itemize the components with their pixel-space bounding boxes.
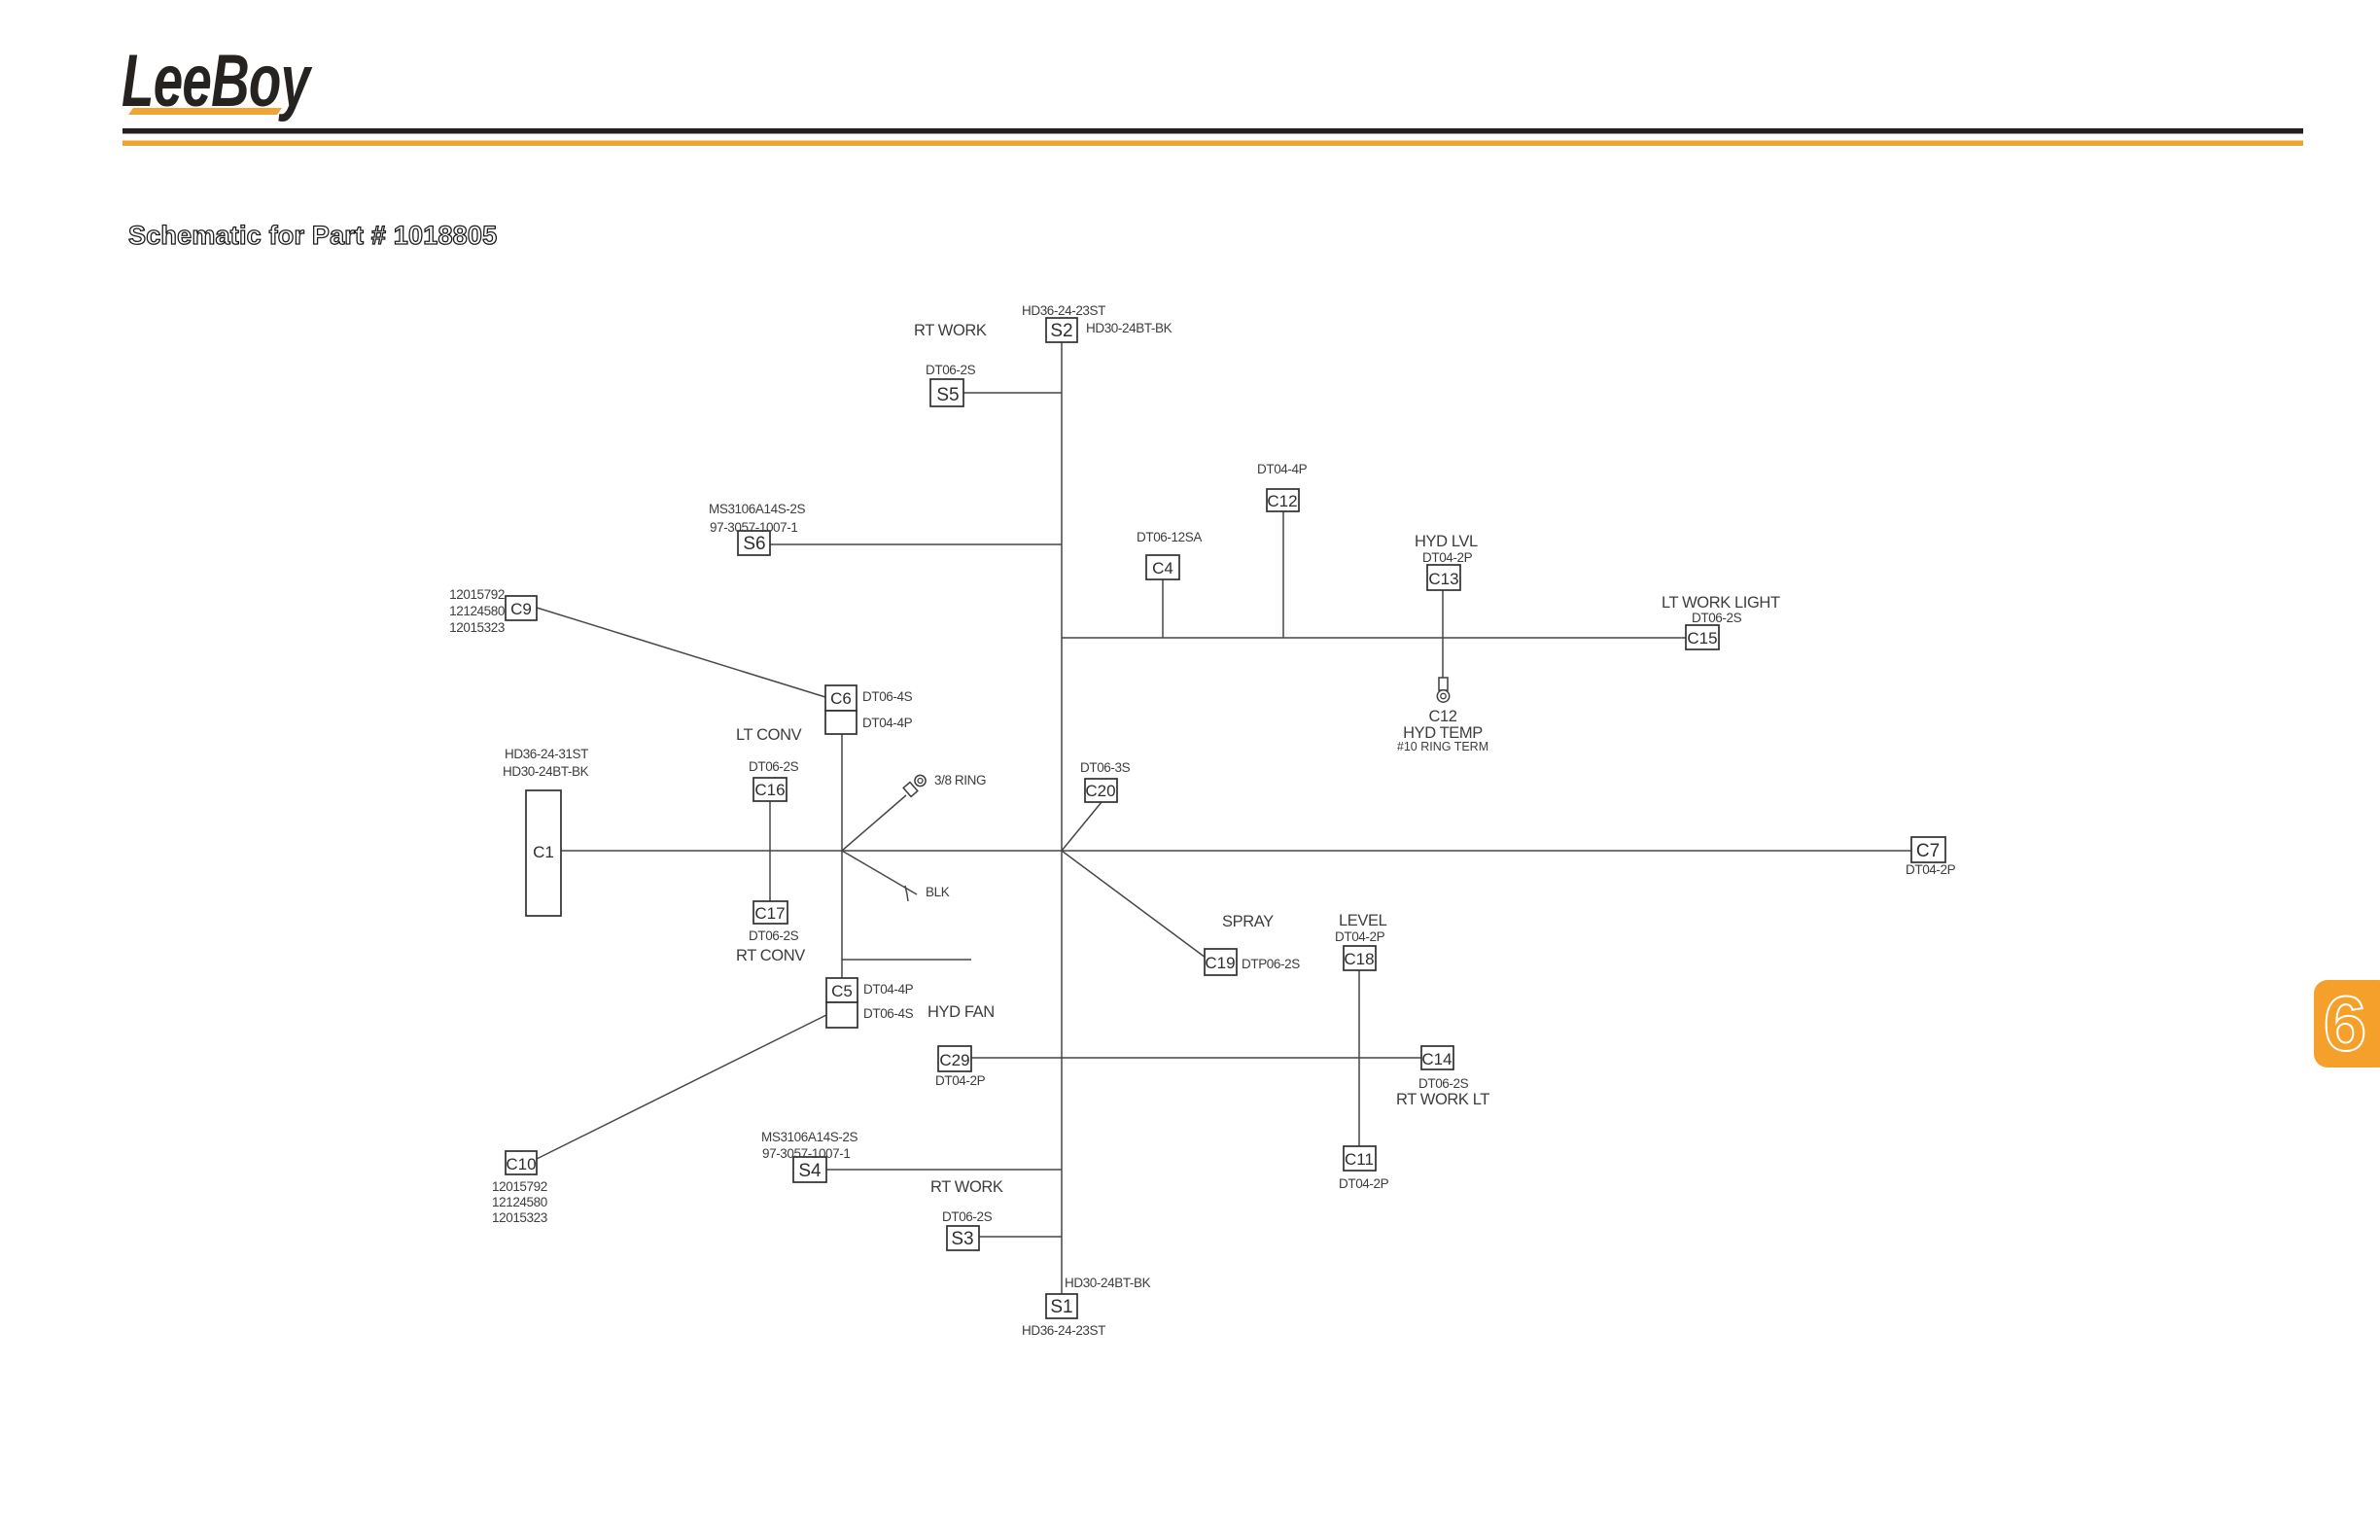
svg-text:C13: C13 bbox=[1428, 570, 1458, 588]
connector C18 bbox=[1335, 929, 1385, 970]
svg-text:C18: C18 bbox=[1344, 950, 1374, 968]
svg-text:DT06-2S: DT06-2S bbox=[942, 1209, 993, 1224]
wire C10 diagonal to C5 bbox=[537, 1015, 826, 1159]
svg-text:C17: C17 bbox=[754, 904, 785, 923]
wire C20 diagonal bbox=[1062, 802, 1102, 851]
svg-text:DTP06-2S: DTP06-2S bbox=[1242, 957, 1300, 971]
connector C10 bbox=[492, 1151, 547, 1225]
header black rule bbox=[122, 128, 2303, 134]
wire C6 to C5 vertical bbox=[841, 734, 843, 978]
svg-text:MS3106A14S-2S: MS3106A14S-2S bbox=[761, 1130, 858, 1144]
svg-text:C14: C14 bbox=[1421, 1050, 1452, 1068]
svg-text:12124580: 12124580 bbox=[449, 604, 505, 618]
wire 3/8 ring diagonal bbox=[842, 795, 906, 851]
svg-text:DT04-4P: DT04-4P bbox=[863, 982, 914, 997]
wire S5 to bus bbox=[963, 392, 1062, 394]
svg-text:C7: C7 bbox=[1916, 841, 1940, 861]
svg-text:Schematic for Part # 1018805: Schematic for Part # 1018805 bbox=[128, 221, 497, 250]
wire C18 to C11 vertical bbox=[1358, 970, 1360, 1146]
svg-text:MS3106A14S-2S: MS3106A14S-2S bbox=[709, 502, 806, 516]
svg-text:S2: S2 bbox=[1050, 321, 1072, 341]
svg-text:DT04-4P: DT04-4P bbox=[1257, 462, 1308, 476]
connector S1 bbox=[1022, 1276, 1151, 1338]
svg-text:C15: C15 bbox=[1687, 629, 1717, 647]
page number badge 6 bbox=[2314, 980, 2380, 1067]
svg-text:S5: S5 bbox=[936, 385, 959, 405]
svg-text:DT04-2P: DT04-2P bbox=[1339, 1176, 1389, 1191]
svg-text:DT04-4P: DT04-4P bbox=[862, 716, 913, 730]
svg-text:HYD FAN: HYD FAN bbox=[927, 1003, 995, 1021]
connector C19 bbox=[1205, 949, 1300, 975]
connector C20 bbox=[1080, 760, 1131, 802]
connector C15 bbox=[1686, 611, 1742, 649]
svg-text:S6: S6 bbox=[743, 534, 765, 554]
connector S4 bbox=[761, 1130, 858, 1182]
svg-text:C20: C20 bbox=[1085, 782, 1115, 800]
svg-text:C9: C9 bbox=[510, 600, 532, 618]
wire C13 to ring terminal bbox=[1442, 590, 1444, 679]
svg-text:C5: C5 bbox=[831, 982, 853, 1000]
wire main vertical bus bbox=[1061, 342, 1063, 1294]
wire RT CONV stub bbox=[842, 959, 971, 961]
svg-text:C10: C10 bbox=[506, 1155, 536, 1173]
svg-text:RT CONV: RT CONV bbox=[736, 947, 805, 964]
svg-text:12015792: 12015792 bbox=[492, 1179, 547, 1194]
wire C12 drop bbox=[1282, 511, 1284, 638]
connector S3 bbox=[942, 1209, 993, 1250]
header orange rule bbox=[122, 141, 2303, 147]
svg-text:12015323: 12015323 bbox=[449, 620, 505, 635]
connector S2 bbox=[1022, 303, 1172, 342]
connector C14 bbox=[1418, 1046, 1469, 1091]
svg-text:HD30-24BT-BK: HD30-24BT-BK bbox=[1065, 1276, 1151, 1290]
svg-text:DT06-4S: DT06-4S bbox=[863, 1006, 914, 1021]
connector C12 (top) bbox=[1257, 462, 1308, 511]
svg-text:6: 6 bbox=[2324, 980, 2367, 1067]
svg-text:RT WORK: RT WORK bbox=[930, 1178, 1003, 1196]
svg-text:BLK: BLK bbox=[926, 885, 950, 899]
svg-text:S4: S4 bbox=[798, 1161, 822, 1181]
svg-text:LEVEL: LEVEL bbox=[1339, 912, 1387, 929]
wire BLK diagonal bbox=[842, 851, 917, 894]
connector C13 bbox=[1422, 550, 1473, 590]
svg-text:12015792: 12015792 bbox=[449, 587, 505, 602]
svg-text:97-3057-1007-1: 97-3057-1007-1 bbox=[710, 520, 797, 535]
svg-text:C6: C6 bbox=[830, 689, 852, 708]
wire C9 diagonal to C6 bbox=[537, 608, 825, 697]
svg-text:RT WORK LT: RT WORK LT bbox=[1396, 1091, 1489, 1108]
svg-text:DT06-2S: DT06-2S bbox=[749, 759, 799, 774]
connector C29 bbox=[935, 1046, 986, 1088]
svg-text:DT06-12SA: DT06-12SA bbox=[1137, 530, 1202, 544]
svg-text:DT04-2P: DT04-2P bbox=[1335, 929, 1385, 944]
connector S5 bbox=[926, 363, 976, 406]
svg-text:C29: C29 bbox=[939, 1051, 969, 1069]
svg-text:DT06-2S: DT06-2S bbox=[1418, 1076, 1469, 1091]
wire C4 drop bbox=[1162, 579, 1164, 638]
connector C16 bbox=[749, 759, 799, 801]
svg-text:HD36-24-23ST: HD36-24-23ST bbox=[1022, 303, 1105, 318]
svg-text:97-3057-1007-1: 97-3057-1007-1 bbox=[762, 1146, 850, 1161]
ring terminal C12 HYD TEMP bbox=[1397, 678, 1488, 753]
svg-text:HD36-24-23ST: HD36-24-23ST bbox=[1022, 1323, 1105, 1338]
svg-text:DT04-2P: DT04-2P bbox=[1906, 862, 1956, 877]
svg-text:C16: C16 bbox=[754, 781, 785, 799]
svg-text:DT06-3S: DT06-3S bbox=[1080, 760, 1131, 775]
connector C4 bbox=[1137, 530, 1202, 579]
connector C17 bbox=[749, 901, 799, 943]
connector C11 bbox=[1339, 1146, 1389, 1191]
connector C7 bbox=[1906, 837, 1956, 877]
svg-text:DT06-2S: DT06-2S bbox=[749, 928, 799, 943]
svg-text:C4: C4 bbox=[1152, 559, 1173, 577]
connector C5 bbox=[826, 978, 914, 1028]
svg-text:HD30-24BT-BK: HD30-24BT-BK bbox=[503, 764, 589, 779]
wire S3 to bus bbox=[979, 1236, 1062, 1238]
ring terminal 3/8 bbox=[903, 773, 986, 796]
svg-text:DT06-2S: DT06-2S bbox=[1692, 611, 1742, 625]
svg-text:S3: S3 bbox=[951, 1229, 973, 1249]
svg-text:S1: S1 bbox=[1050, 1297, 1072, 1317]
svg-text:LT CONV: LT CONV bbox=[736, 726, 802, 744]
svg-text:C1: C1 bbox=[533, 843, 554, 861]
svg-text:DT04-2P: DT04-2P bbox=[1422, 550, 1473, 565]
LeeBoy logo bbox=[122, 40, 313, 122]
connector C9 bbox=[449, 587, 537, 635]
connector C1 bbox=[503, 747, 589, 916]
wire S4 to bus bbox=[826, 1169, 1062, 1171]
wire upper horizontal bus to C15 bbox=[1062, 637, 1686, 639]
svg-text:HD30-24BT-BK: HD30-24BT-BK bbox=[1086, 321, 1172, 335]
svg-text:C12: C12 bbox=[1428, 708, 1456, 725]
wire C16 to C17 vertical bbox=[769, 801, 771, 901]
svg-text:HD36-24-31ST: HD36-24-31ST bbox=[505, 747, 588, 761]
wire C19 diagonal bbox=[1062, 851, 1206, 958]
connector C6 bbox=[825, 685, 913, 734]
wire C29 to C14 bbox=[971, 1057, 1421, 1059]
wire S6 to bus bbox=[770, 543, 1062, 545]
svg-text:DT06-2S: DT06-2S bbox=[926, 363, 976, 377]
svg-text:12015323: 12015323 bbox=[492, 1210, 547, 1225]
svg-text:DT06-4S: DT06-4S bbox=[862, 689, 913, 704]
svg-text:C11: C11 bbox=[1345, 1150, 1374, 1169]
svg-text:3/8 RING: 3/8 RING bbox=[934, 773, 986, 787]
wire BLK tick bbox=[905, 886, 908, 901]
svg-text:HYD LVL: HYD LVL bbox=[1415, 533, 1478, 550]
svg-text:RT WORK: RT WORK bbox=[914, 322, 987, 339]
svg-text:12124580: 12124580 bbox=[492, 1195, 547, 1209]
svg-text:#10 RING TERM: #10 RING TERM bbox=[1397, 740, 1488, 753]
svg-text:DT04-2P: DT04-2P bbox=[935, 1073, 986, 1088]
svg-text:LT WORK LIGHT: LT WORK LIGHT bbox=[1662, 594, 1780, 612]
svg-text:C19: C19 bbox=[1205, 954, 1235, 972]
connector S6 bbox=[709, 502, 806, 555]
svg-text:C12: C12 bbox=[1267, 492, 1297, 510]
wire main horizontal C1 to C7 bbox=[561, 850, 1911, 852]
svg-text:SPRAY: SPRAY bbox=[1222, 913, 1274, 930]
